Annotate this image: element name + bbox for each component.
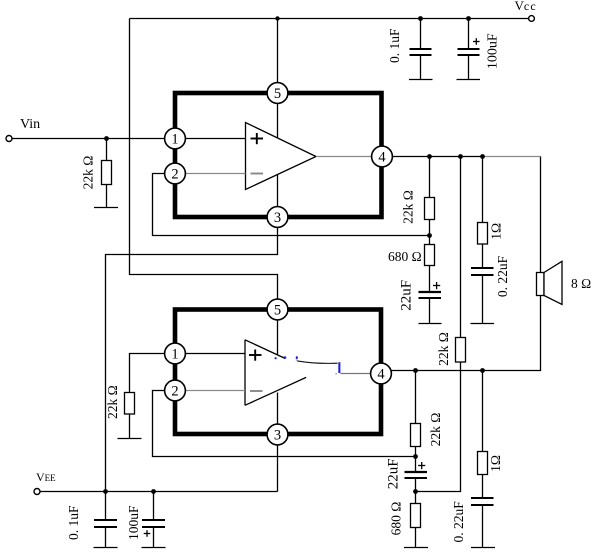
speaker 8-ohm — [537, 261, 592, 304]
wire 22k to 22uF lower — [415, 447, 417, 472]
wire 22k U2 bottom lead — [129, 414, 131, 439]
pin 1 U2 — [165, 343, 186, 364]
resistor 22k bridge — [436, 332, 466, 366]
wire U1 pin3 to VEE rail — [106, 227, 278, 491]
svg-text:0. 1uF: 0. 1uF — [66, 505, 81, 540]
wire R1 top lead — [106, 139, 108, 161]
svg-text:VEE: VEE — [36, 470, 56, 484]
capacitor 100uF bottom — [126, 492, 165, 548]
resistor 22k U2 feedback — [411, 413, 443, 447]
capacitor 100uF top — [458, 19, 501, 80]
node junction rail pin5 — [275, 16, 279, 20]
svg-text:4: 4 — [377, 367, 385, 383]
wire Vcc top rail — [130, 18, 529, 20]
wire U1 internal pin5-pin3 — [277, 103, 279, 206]
node VEE terminal — [34, 470, 56, 495]
wire U1 pin2 feedback loop — [153, 174, 430, 236]
svg-text:0. 22uF: 0. 22uF — [495, 255, 510, 297]
wire U1 output to pin4 — [316, 156, 372, 158]
node junction feedback tap lower — [413, 454, 418, 459]
pin 2 U2 — [165, 380, 186, 401]
wire 1ohm upper top lead — [482, 157, 484, 223]
wire bridge 22k to lower node — [416, 362, 461, 492]
node junction lowerout/22k — [413, 368, 418, 373]
svg-text:2: 2 — [171, 384, 178, 400]
wire U1 output net gray segment — [483, 156, 541, 158]
svg-text:3: 3 — [274, 210, 281, 226]
wire U2 pin2 to - input — [185, 390, 245, 392]
node Vin terminal — [6, 117, 40, 142]
pin 4 U1 — [372, 146, 393, 167]
svg-text:Vcc: Vcc — [515, 0, 537, 13]
U2 minus sign — [250, 390, 263, 392]
capacitor 0.1uF top — [387, 19, 432, 80]
capacitor 0.22uF upper — [471, 255, 510, 323]
ground 0.1uF bottom — [94, 547, 118, 549]
wire bridge 22k top lead — [460, 157, 462, 338]
capacitor 22uF upper — [399, 280, 442, 324]
capacitor 22uF lower — [386, 458, 428, 491]
wire speaker bottom to U2 pin4 — [391, 296, 540, 371]
ground 22uF upper — [419, 323, 442, 325]
wire U2 pin1 to + input — [185, 353, 245, 355]
svg-text:8 Ω: 8 Ω — [571, 276, 591, 291]
svg-text:1Ω: 1Ω — [488, 455, 503, 472]
U1 minus sign — [251, 173, 264, 175]
U2 plus sign — [249, 350, 262, 361]
wire 22k upper feedback top lead — [429, 157, 431, 198]
wire R1 bottom lead — [106, 185, 108, 208]
svg-text:22uF: 22uF — [399, 280, 415, 311]
wire 1ohm lower top lead — [482, 371, 484, 452]
svg-text:4: 4 — [378, 150, 386, 166]
svg-text:0. 22uF: 0. 22uF — [451, 501, 466, 543]
ground 0.22uF lower — [471, 547, 495, 549]
ground 100uF top — [457, 79, 481, 81]
resistor 22k input — [81, 156, 112, 190]
pin 5 U1 — [267, 83, 288, 104]
node junction output/zobel — [480, 154, 485, 159]
svg-text:1Ω: 1Ω — [489, 223, 504, 240]
resistor 1ohm lower — [478, 452, 504, 475]
svg-text:1: 1 — [171, 347, 178, 363]
op-amp U2 triangle bottom edge partial — [245, 377, 306, 405]
svg-text:2: 2 — [171, 167, 178, 183]
svg-text:22k Ω: 22k Ω — [428, 413, 443, 447]
resistor 680 upper — [388, 245, 435, 266]
op-amp U2 triangle top edge partial — [245, 340, 285, 359]
wire node to 680 lower — [415, 492, 417, 504]
pin 1 U1 — [165, 128, 186, 149]
svg-text:22k Ω: 22k Ω — [401, 190, 416, 224]
wire Vin to pin1 — [12, 138, 164, 140]
node junction rail C-100uF — [466, 16, 471, 21]
wire 22k to 680 — [429, 220, 431, 245]
capacitor 0.1uF bottom — [66, 492, 117, 548]
op-amp U2 package box — [175, 310, 381, 435]
svg-text:3: 3 — [274, 428, 281, 444]
wire U1 pin5 drop from rail — [277, 19, 279, 83]
node junction VEE/100uF — [151, 489, 156, 494]
op-amp U2 triangle left edge — [244, 340, 246, 406]
resistor 22k U2 input — [105, 385, 134, 419]
capacitor 0.22uF lower — [451, 498, 493, 548]
svg-text:5: 5 — [274, 303, 281, 319]
svg-text:22k Ω: 22k Ω — [436, 332, 451, 366]
wire U1 output net — [392, 156, 482, 158]
ground 100uF bottom — [142, 547, 166, 549]
node junction input/R1 — [104, 136, 109, 141]
wire U2 output to pin4 — [340, 373, 370, 375]
wire 680 lower bottom lead — [415, 528, 417, 548]
node junction feedback tap upper — [427, 233, 432, 238]
node junction VEE/0.1uF — [103, 489, 108, 494]
node Vcc terminal — [515, 0, 537, 21]
pin 5 U2 — [267, 299, 288, 320]
node junction rail C-0.1uF — [418, 16, 423, 21]
wire left drop from rail to U2 pin5 — [130, 19, 278, 300]
ground 0.1uF top — [409, 79, 433, 81]
U1 plus sign — [251, 133, 264, 144]
svg-text:100uF: 100uF — [486, 33, 501, 69]
resistor 680 lower — [389, 502, 421, 536]
pin 3 U1 — [267, 207, 288, 228]
ground 22k U2 — [118, 438, 142, 440]
node junction lowerout/zobel — [480, 368, 485, 373]
pin 4 U2 — [371, 363, 392, 384]
wire output down to speaker — [540, 157, 542, 273]
svg-text:1: 1 — [171, 132, 178, 148]
svg-text:0. 1uF: 0. 1uF — [387, 28, 402, 63]
svg-text:22k Ω: 22k Ω — [105, 385, 120, 419]
ground 0.22uF upper — [471, 323, 495, 325]
wire U1 pin1 to + input — [185, 138, 245, 140]
node junction 22uF/680 lower — [413, 489, 418, 494]
ground input R1 — [94, 207, 118, 209]
svg-text:680 Ω: 680 Ω — [389, 502, 404, 536]
svg-text:680 Ω: 680 Ω — [388, 249, 422, 264]
wire U2 pin3 to VEE — [277, 445, 279, 492]
wire 22k U2 feedback top lead — [415, 371, 417, 424]
wire U2 pin2 feedback loop — [153, 391, 416, 457]
wire 680 to 22uF — [429, 266, 431, 292]
svg-text:22uF: 22uF — [386, 458, 402, 489]
wire 1ohm to 0.22uF upper — [482, 244, 484, 267]
node junction output/bridge22k — [458, 154, 463, 159]
svg-text:5: 5 — [274, 86, 281, 102]
wire U2 pin1 ext to 22k — [130, 354, 165, 393]
glitch artifacts U2 output — [275, 356, 341, 374]
wire 1ohm to 0.22uF lower — [482, 475, 484, 498]
wire U2 internal pin3 segment — [277, 393, 279, 425]
op-amp U1 package box — [175, 93, 382, 217]
node junction output/22k — [427, 154, 432, 159]
op-amp U1 triangle — [246, 123, 317, 190]
wire U1 pin2 to - input — [185, 173, 245, 175]
pin 2 U1 — [165, 163, 186, 184]
svg-text:100uF: 100uF — [126, 505, 141, 540]
svg-text:Vin: Vin — [20, 117, 40, 132]
pin 3 U2 — [267, 424, 288, 445]
resistor 22k upper feedback — [401, 190, 435, 224]
svg-text:22k Ω: 22k Ω — [81, 156, 96, 190]
wire VEE rail — [40, 491, 278, 493]
wire U2 internal pin5 segment — [277, 320, 279, 355]
ground 680 lower — [404, 547, 428, 549]
resistor 1ohm upper — [478, 223, 504, 245]
